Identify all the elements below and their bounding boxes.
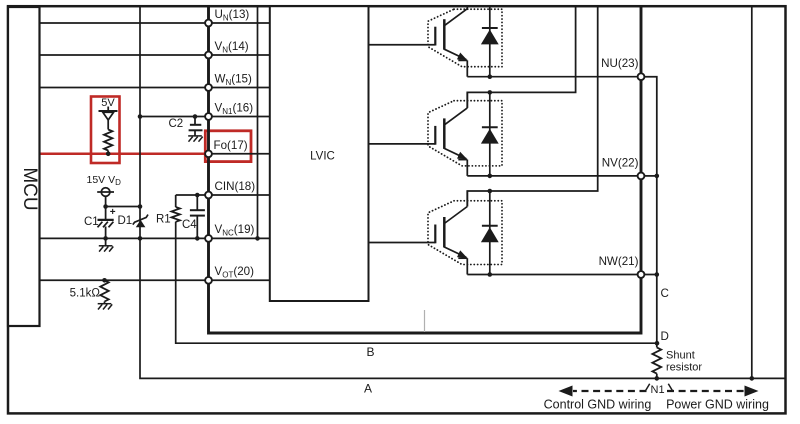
wire (emitter node to N pin, Q2 (V-phase)) [467, 175, 641, 177]
pin UN(13) terminal [205, 20, 212, 27]
wire (emitter node to N pin, Q3 (W-phase)) [467, 274, 641, 276]
wire (gate drive from LVIC to Q1 (U-phase)) [369, 44, 436, 46]
junction (power GND return at line A) [750, 376, 755, 381]
svg-text:B: B [366, 345, 374, 359]
pin WN(15) terminal [205, 84, 212, 91]
wire (gate drive from LVIC to Q2 (V-phase)) [369, 143, 436, 145]
MCU box [8, 7, 40, 326]
svg-text:C1: C1 [84, 216, 99, 228]
pin Fo(17) terminal [205, 150, 212, 157]
junction (C2 to VN1 row) [193, 114, 198, 119]
svg-text:5.1kΩ: 5.1kΩ [70, 288, 101, 300]
transistor Q2 (V-phase) IGBT symbol [435, 108, 467, 176]
wire (red highlighted Fo trace) [40, 153, 207, 156]
junction (VD bus at 15V row) [138, 204, 143, 209]
transistor Q1 (U-phase) dotted module outline [428, 9, 502, 66]
wire (NV stub) [642, 175, 657, 177]
junction (x257 drop to VNC row) [255, 236, 260, 241]
capacitor C4 [196, 195, 198, 210]
junction (VN1 to VD bus) [138, 114, 143, 119]
svg-text:C: C [661, 287, 669, 300]
svg-text:resistor: resistor [666, 362, 702, 374]
wire (right vertical power GND return x=751.8) [751, 6, 753, 378]
wire (NU stub and N sense line down to N1) [641, 77, 657, 348]
wire (CIN row) [176, 194, 270, 196]
junction (diode anode at node, Q2 (V-phase)) [488, 174, 493, 179]
wire (VOT row) [40, 279, 270, 281]
svg-text:LVIC: LVIC [310, 151, 335, 163]
ground (5.1k) [98, 304, 113, 310]
svg-text:R1: R1 [156, 214, 171, 226]
junction (NW to N line) [655, 272, 660, 277]
ground (C1) [99, 246, 114, 252]
junction (5.1k to VOT row) [102, 278, 107, 283]
resistor R1 [172, 207, 180, 222]
wire (faint artifact) [424, 310, 426, 332]
resistor shunt [652, 347, 661, 373]
junction (C4 top to CIN row) [195, 193, 200, 198]
svg-text:C4: C4 [182, 219, 197, 231]
op-amp U1 (LVIC block) [270, 6, 369, 301]
svg-text:C2: C2 [169, 118, 184, 130]
pin VNC(19) terminal [205, 235, 212, 242]
wire (emitter node to N pin, Q1 (U-phase)) [467, 76, 641, 78]
power GND wiring arrow [667, 390, 744, 392]
junction (15V node) [103, 204, 108, 209]
svg-text:VN1(16): VN1(16) [215, 101, 254, 116]
control GND wiring arrow [573, 390, 647, 392]
pin NV(22) terminal [638, 173, 645, 180]
wire (NW stub) [641, 274, 657, 276]
wire (collector riser to P rail) [466, 6, 468, 9]
pin CIN(18) terminal [205, 192, 212, 199]
wire (UN input row) [40, 22, 270, 24]
wire (collector riser / top link) [467, 6, 597, 206]
wire (collector riser / top link) [467, 6, 575, 108]
wire (VNC control ground rail) [40, 237, 270, 239]
wire (gate drive from LVIC to Q3 (W-phase)) [369, 242, 436, 244]
svg-text:Control GND wiring: Control GND wiring [544, 398, 652, 412]
pin NW(21) terminal [638, 271, 645, 278]
junction (C4 bottom to VNC rail) [195, 236, 200, 241]
junction (FWD diode top, Q2 (V-phase)) [488, 90, 493, 95]
wire (15V to VD bus) [106, 206, 140, 208]
svg-text:VNC(19): VNC(19) [215, 223, 255, 238]
svg-text:MCU: MCU [19, 167, 40, 210]
transistor Q3 (W-phase) IGBT symbol [435, 207, 467, 275]
node A (red box around 5V clamp) [91, 97, 120, 164]
wire (VN input row) [40, 54, 270, 56]
svg-text:Fo(17): Fo(17) [214, 139, 248, 152]
wire (vertical from top to VNC row x=257.5) [257, 6, 259, 238]
svg-text:D: D [661, 330, 669, 343]
wire (VN1 row) [140, 116, 270, 118]
svg-text:NU(23): NU(23) [601, 57, 639, 70]
transistor Q3 (W-phase) dotted module outline [428, 201, 502, 265]
svg-text:+: + [110, 207, 116, 218]
pin VN1(16) terminal [205, 113, 212, 120]
terminal (15V VD) [101, 188, 110, 197]
pin VN(14) terminal [205, 52, 212, 59]
diode FWD (Q1 (U-phase)) [489, 6, 491, 77]
wire (R1 down to line B) [176, 222, 657, 343]
node B (red box around Fo pin label) [205, 131, 251, 162]
junction (D1 anode to VNC rail / line A) [138, 236, 143, 241]
svg-text:A: A [364, 382, 372, 396]
resistor (5V pull-up) [104, 130, 112, 151]
svg-text:Shunt: Shunt [666, 349, 695, 361]
capacitor C1 [105, 207, 107, 220]
junction (diode anode at node, Q3 (W-phase)) [488, 272, 493, 277]
wire (VD bus x=140 down to control-GND line A) [140, 6, 786, 378]
junction (5V resistor to Fo line) [106, 152, 111, 157]
pin NU(23) terminal [638, 73, 645, 80]
junction (node D, line B to shunt) [655, 341, 660, 346]
svg-text:NW(21): NW(21) [599, 255, 639, 268]
junction (FWD diode top, Q3 (W-phase)) [488, 189, 493, 194]
svg-text:NV(22): NV(22) [602, 156, 639, 169]
svg-text:CIN(18): CIN(18) [215, 180, 256, 193]
diode FWD (Q2 (V-phase)) [489, 92, 491, 175]
transistor Q1 (U-phase) IGBT symbol [435, 9, 467, 77]
ground (C2) [188, 136, 203, 142]
wire (Fo row, pin to LVIC) [207, 153, 270, 155]
svg-text:D1: D1 [118, 215, 133, 227]
svg-text:Power GND wiring: Power GND wiring [666, 398, 769, 412]
junction (shunt to N1 ground line) [655, 376, 660, 381]
svg-text:N1: N1 [651, 384, 665, 396]
svg-text:VOT(20): VOT(20) [215, 265, 255, 280]
svg-text:VN(14): VN(14) [215, 40, 249, 55]
transistor Q2 (V-phase) dotted module outline [428, 101, 502, 166]
zener diode ZD (5V clamp) [99, 107, 118, 130]
wire (WN input row) [40, 87, 270, 89]
junction (NV to N line) [655, 174, 660, 179]
zener diode D1 [136, 220, 146, 227]
svg-text:UN(13): UN(13) [215, 8, 250, 23]
junction (diode anode at node, Q1 (U-phase)) [488, 74, 493, 79]
diode FWD (Q3 (W-phase)) [489, 191, 491, 275]
wire (CIN corner down to R1) [175, 195, 177, 207]
pin VOT(20) terminal [205, 277, 212, 284]
wire (DIPIPM package outline, thick) [209, 6, 642, 333]
capacitor C2 [194, 117, 196, 125]
resistor 5.1k [100, 280, 108, 301]
junction (C1 to VNC rail) [103, 236, 108, 241]
svg-text:WN(15): WN(15) [215, 72, 252, 87]
